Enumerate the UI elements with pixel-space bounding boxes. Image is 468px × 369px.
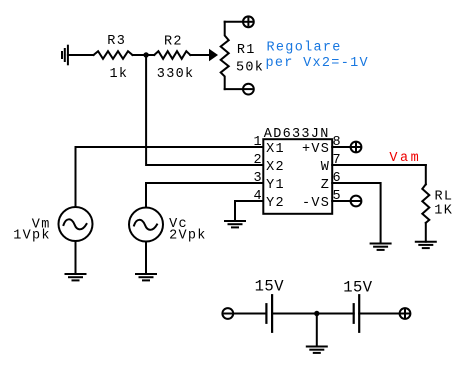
wire Vm to ground	[75, 241, 77, 274]
svg-text:+VS: +VS	[302, 142, 330, 157]
wire pin8 +VS to terminal	[332, 146, 350, 148]
wire Vc to ground	[145, 242, 147, 275]
wire W down to RL	[425, 165, 427, 184]
wire R1 top lead	[225, 21, 243, 23]
wire V1 to V2	[272, 313, 354, 315]
terminal plus (V2 right)	[400, 308, 411, 319]
wire pin5 -VS to terminal	[332, 200, 350, 202]
ground (Vm)	[66, 274, 86, 280]
svg-text:1Vpk: 1Vpk	[13, 229, 51, 244]
svg-text:1K: 1K	[434, 203, 453, 218]
svg-text:4: 4	[254, 189, 263, 204]
op-amp U1 AD633JN body	[263, 139, 332, 214]
wire center node to ground	[316, 314, 318, 347]
svg-text:7: 7	[333, 153, 342, 168]
wire Y2 to ground	[235, 201, 263, 221]
svg-text:Y1: Y1	[266, 178, 285, 193]
svg-text:2: 2	[254, 153, 263, 168]
svg-text:15V: 15V	[255, 278, 285, 296]
resistor R3	[94, 51, 133, 59]
resistor R2	[154, 51, 190, 59]
svg-text:R1: R1	[237, 43, 256, 58]
terminal minus (V1 left)	[222, 308, 233, 319]
wire pin6 Z to ground	[332, 183, 380, 244]
wire R1 bottom lead	[225, 88, 243, 90]
svg-text:1k: 1k	[110, 67, 129, 82]
svg-text:Regolare: Regolare	[267, 40, 342, 55]
ground (Z)	[371, 244, 391, 250]
svg-text:15V: 15V	[343, 279, 373, 297]
wire Vc to Y1	[146, 183, 263, 208]
svg-text:6: 6	[333, 171, 342, 186]
wire V2 to plus terminal	[359, 313, 400, 315]
svg-text:2Vpk: 2Vpk	[169, 229, 207, 244]
svg-text:1: 1	[254, 135, 263, 150]
wiper arrowhead R1	[209, 49, 218, 61]
svg-text:Z: Z	[321, 178, 330, 193]
battery V2 15V	[354, 295, 360, 332]
ground (Y2)	[225, 221, 245, 227]
svg-text:50k: 50k	[236, 60, 264, 75]
wire pin7 W to RL	[332, 164, 426, 166]
resistor RL	[422, 184, 429, 223]
ground (Vc)	[136, 274, 156, 280]
svg-text:W: W	[321, 160, 330, 175]
svg-text:Vam: Vam	[389, 151, 421, 166]
svg-text:8: 8	[333, 135, 342, 150]
svg-text:per Vx2=-1V: per Vx2=-1V	[266, 56, 369, 71]
potentiometer R1 body	[221, 22, 229, 89]
svg-text:-VS: -VS	[302, 196, 330, 211]
source Vm	[59, 207, 93, 241]
ground (RL)	[416, 242, 436, 248]
node junction dot supply center	[314, 311, 319, 316]
ground GND1 (left, sideways)	[62, 46, 68, 65]
wire Vm to X1	[76, 147, 264, 207]
ground (supply center)	[307, 347, 327, 353]
wire GND1 to R3	[68, 54, 94, 56]
wire R2 to wiper arrow	[190, 54, 209, 56]
battery V1 15V	[266, 295, 272, 332]
svg-text:Y2: Y2	[266, 196, 285, 211]
svg-text:5: 5	[333, 189, 342, 204]
svg-text:R3: R3	[107, 34, 126, 49]
svg-text:3: 3	[254, 171, 263, 186]
svg-text:330k: 330k	[157, 67, 195, 82]
node junction R3/R2 vertical wire to X2	[146, 55, 263, 165]
svg-text:AD633JN: AD633JN	[264, 127, 330, 142]
svg-text:X1: X1	[266, 142, 285, 157]
terminal plus (R1 top)	[243, 16, 254, 27]
wire RL to ground	[425, 223, 427, 242]
wire minus terminal to V1	[234, 313, 267, 315]
terminal minus (R1 bottom)	[243, 84, 254, 95]
terminal plus (+VS)	[351, 142, 362, 153]
wire R3 to R2	[133, 54, 155, 56]
svg-text:X2: X2	[266, 160, 285, 175]
svg-text:R2: R2	[164, 35, 183, 50]
terminal minus (-VS)	[351, 196, 362, 207]
source Vc	[129, 208, 163, 242]
node A junction dot R3/R2	[143, 52, 148, 57]
